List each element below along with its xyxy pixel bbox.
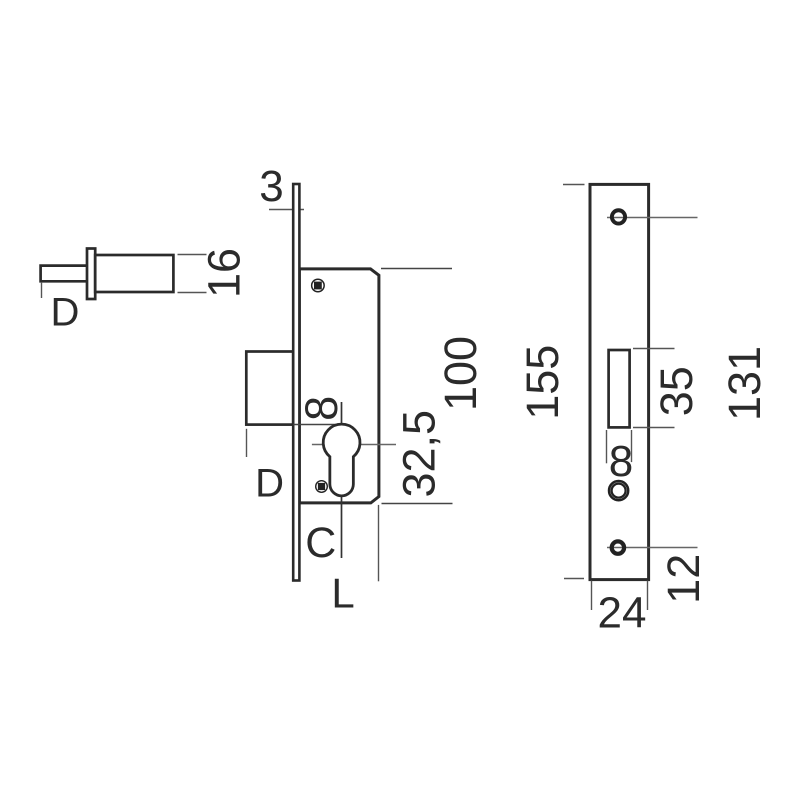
svg-text:D: D xyxy=(51,291,80,335)
svg-text:3: 3 xyxy=(259,162,283,211)
middle double ring hole xyxy=(609,481,628,500)
top screw hole xyxy=(612,210,625,223)
bottom screw hole leader line xyxy=(607,547,698,549)
dim 8 extension right xyxy=(631,430,633,462)
bottom screw hole xyxy=(612,541,624,553)
spindle flange xyxy=(87,249,95,300)
dim 24 extension left xyxy=(591,581,593,610)
dim 155 extension top xyxy=(563,184,585,186)
block extension line xyxy=(246,429,248,457)
dim 8 extension left xyxy=(606,430,608,463)
top screw xyxy=(311,279,325,293)
cylinder axis vertical line xyxy=(341,402,343,558)
svg-text:32,5: 32,5 xyxy=(394,410,445,498)
case bottom extension line xyxy=(382,503,453,505)
top screw hole leader line xyxy=(607,217,698,219)
svg-text:24: 24 xyxy=(598,589,647,638)
face plate outline xyxy=(590,184,649,579)
dim 3 tick line xyxy=(269,209,304,211)
case depth extension line xyxy=(378,505,380,581)
svg-text:16: 16 xyxy=(198,248,249,298)
lock case xyxy=(299,269,379,503)
svg-text:L: L xyxy=(331,569,354,616)
dim 16 extension bottom xyxy=(178,292,207,294)
svg-text:12: 12 xyxy=(658,554,709,604)
euro profile cylinder cutout xyxy=(323,424,360,496)
dim D extension line xyxy=(41,282,43,298)
svg-text:D: D xyxy=(255,461,284,505)
dim 24 extension right xyxy=(647,581,649,610)
dim 35 extension top xyxy=(633,348,675,350)
latch slot xyxy=(609,350,630,427)
dim 8 line (block bottom continuation) xyxy=(293,424,339,426)
dim 16 extension top xyxy=(178,254,207,256)
dim 35 extension bottom xyxy=(633,427,675,429)
spindle shaft xyxy=(41,266,87,282)
faceplate xyxy=(293,184,299,581)
svg-text:131: 131 xyxy=(719,346,770,421)
dim 155 extension bottom xyxy=(564,578,584,580)
latch bolt block xyxy=(246,352,293,425)
svg-text:100: 100 xyxy=(435,336,486,411)
svg-text:C: C xyxy=(305,519,336,567)
case top extension line xyxy=(381,268,452,270)
cylinder center horizontal line xyxy=(312,444,396,446)
bottom screw xyxy=(315,480,328,493)
svg-text:8: 8 xyxy=(296,396,347,421)
svg-text:35: 35 xyxy=(651,366,702,416)
svg-text:155: 155 xyxy=(517,345,568,420)
spindle body xyxy=(95,255,173,292)
svg-text:8: 8 xyxy=(609,437,633,486)
